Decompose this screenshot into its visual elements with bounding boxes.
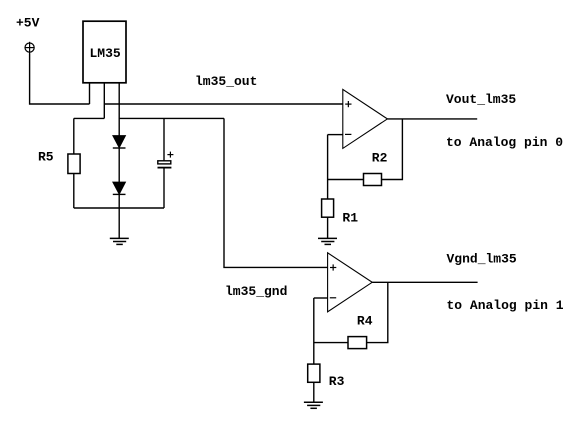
wire inverting node down to R3 <box>313 298 315 364</box>
op-amp U2A triangle <box>343 89 388 148</box>
resistor R4 <box>348 337 367 349</box>
svg-text:to Analog pin 0: to Analog pin 0 <box>446 135 563 150</box>
wire rail pin 2 to R5 branch <box>74 117 105 119</box>
svg-text:+5V: +5V <box>16 16 40 31</box>
ground symbol (diode branch) <box>110 238 129 244</box>
resistor R5 <box>68 154 80 174</box>
wire R3 bottom to ground <box>313 382 315 402</box>
wire R4 left lead <box>314 342 348 344</box>
wire +5V supply to LM35 pin 1 <box>30 54 90 105</box>
svg-text:lm35_gnd: lm35_gnd <box>225 284 287 299</box>
wire R5 branch top <box>73 118 75 154</box>
op-amp U2A minus input marker <box>345 133 351 135</box>
wire op-amp U2A inverting input <box>328 134 343 136</box>
svg-text:R3: R3 <box>329 374 345 389</box>
LM35 pin 3 wire (GND) <box>118 83 120 136</box>
resistor R1 <box>322 199 334 217</box>
diode D2 <box>113 182 126 194</box>
wire rail pin 3 to capacitor and lm35_gnd branch <box>119 117 224 119</box>
LM35 pin 2 wire (Vout) <box>103 83 105 119</box>
wire D2 cathode to ground rail <box>118 194 120 208</box>
svg-text:R4: R4 <box>357 313 373 328</box>
wire capacitor bottom to ground rail <box>163 169 165 209</box>
svg-text:Vgnd_lm35: Vgnd_lm35 <box>447 251 517 266</box>
op-amp U2B plus input marker <box>330 264 336 270</box>
diode D1 <box>113 136 126 148</box>
op-amp U2A plus input marker <box>345 101 351 107</box>
wire ground stem (diode branch) <box>118 208 120 238</box>
wire capacitor branch top <box>163 118 165 160</box>
wire R5 bottom to ground rail <box>73 174 75 209</box>
svg-text:R2: R2 <box>372 150 388 165</box>
svg-text:to Analog pin 1: to Analog pin 1 <box>447 298 564 313</box>
wire net lm35_gnd from rail to op-amp U2B non-inverting input <box>224 118 328 267</box>
ground symbol (op-amp U2B feedback) <box>304 402 323 408</box>
wire D1 cathode to D2 anode <box>118 148 120 182</box>
resistor R3 <box>308 364 320 382</box>
IC U1 LM35 body <box>83 21 126 83</box>
svg-text:R1: R1 <box>342 210 358 225</box>
wire inverting node down to R1 <box>327 135 329 199</box>
svg-text:lm35_out: lm35_out <box>195 74 257 89</box>
wire R2 left lead <box>328 179 364 181</box>
svg-text:R5: R5 <box>38 150 54 165</box>
capacitor C1 polarized <box>158 152 174 168</box>
wire ground rail <box>74 207 164 209</box>
op-amp U2B minus input marker <box>330 297 336 299</box>
LM35 pin 1 wire (VCC) <box>89 83 91 104</box>
svg-text:LM35: LM35 <box>90 46 121 61</box>
wire op-amp U2B inverting input <box>314 297 328 299</box>
wire R4 right lead up to output <box>367 282 388 342</box>
wire R2 right lead up to output <box>382 119 403 180</box>
resistor R2 <box>364 174 382 186</box>
ground symbol (op-amp U2A feedback) <box>318 238 337 244</box>
wire net lm35_out from pin 2 to op-amp U2A non-inverting input <box>104 103 342 105</box>
op-amp U2B triangle <box>328 253 373 312</box>
power supply terminal +5V <box>25 42 35 54</box>
wire op-amp U2B output Vgnd_lm35 <box>372 281 477 283</box>
svg-text:Vout_lm35: Vout_lm35 <box>446 92 516 107</box>
wire R1 bottom to ground <box>327 217 329 238</box>
wire op-amp U2A output Vout_lm35 <box>387 118 477 120</box>
